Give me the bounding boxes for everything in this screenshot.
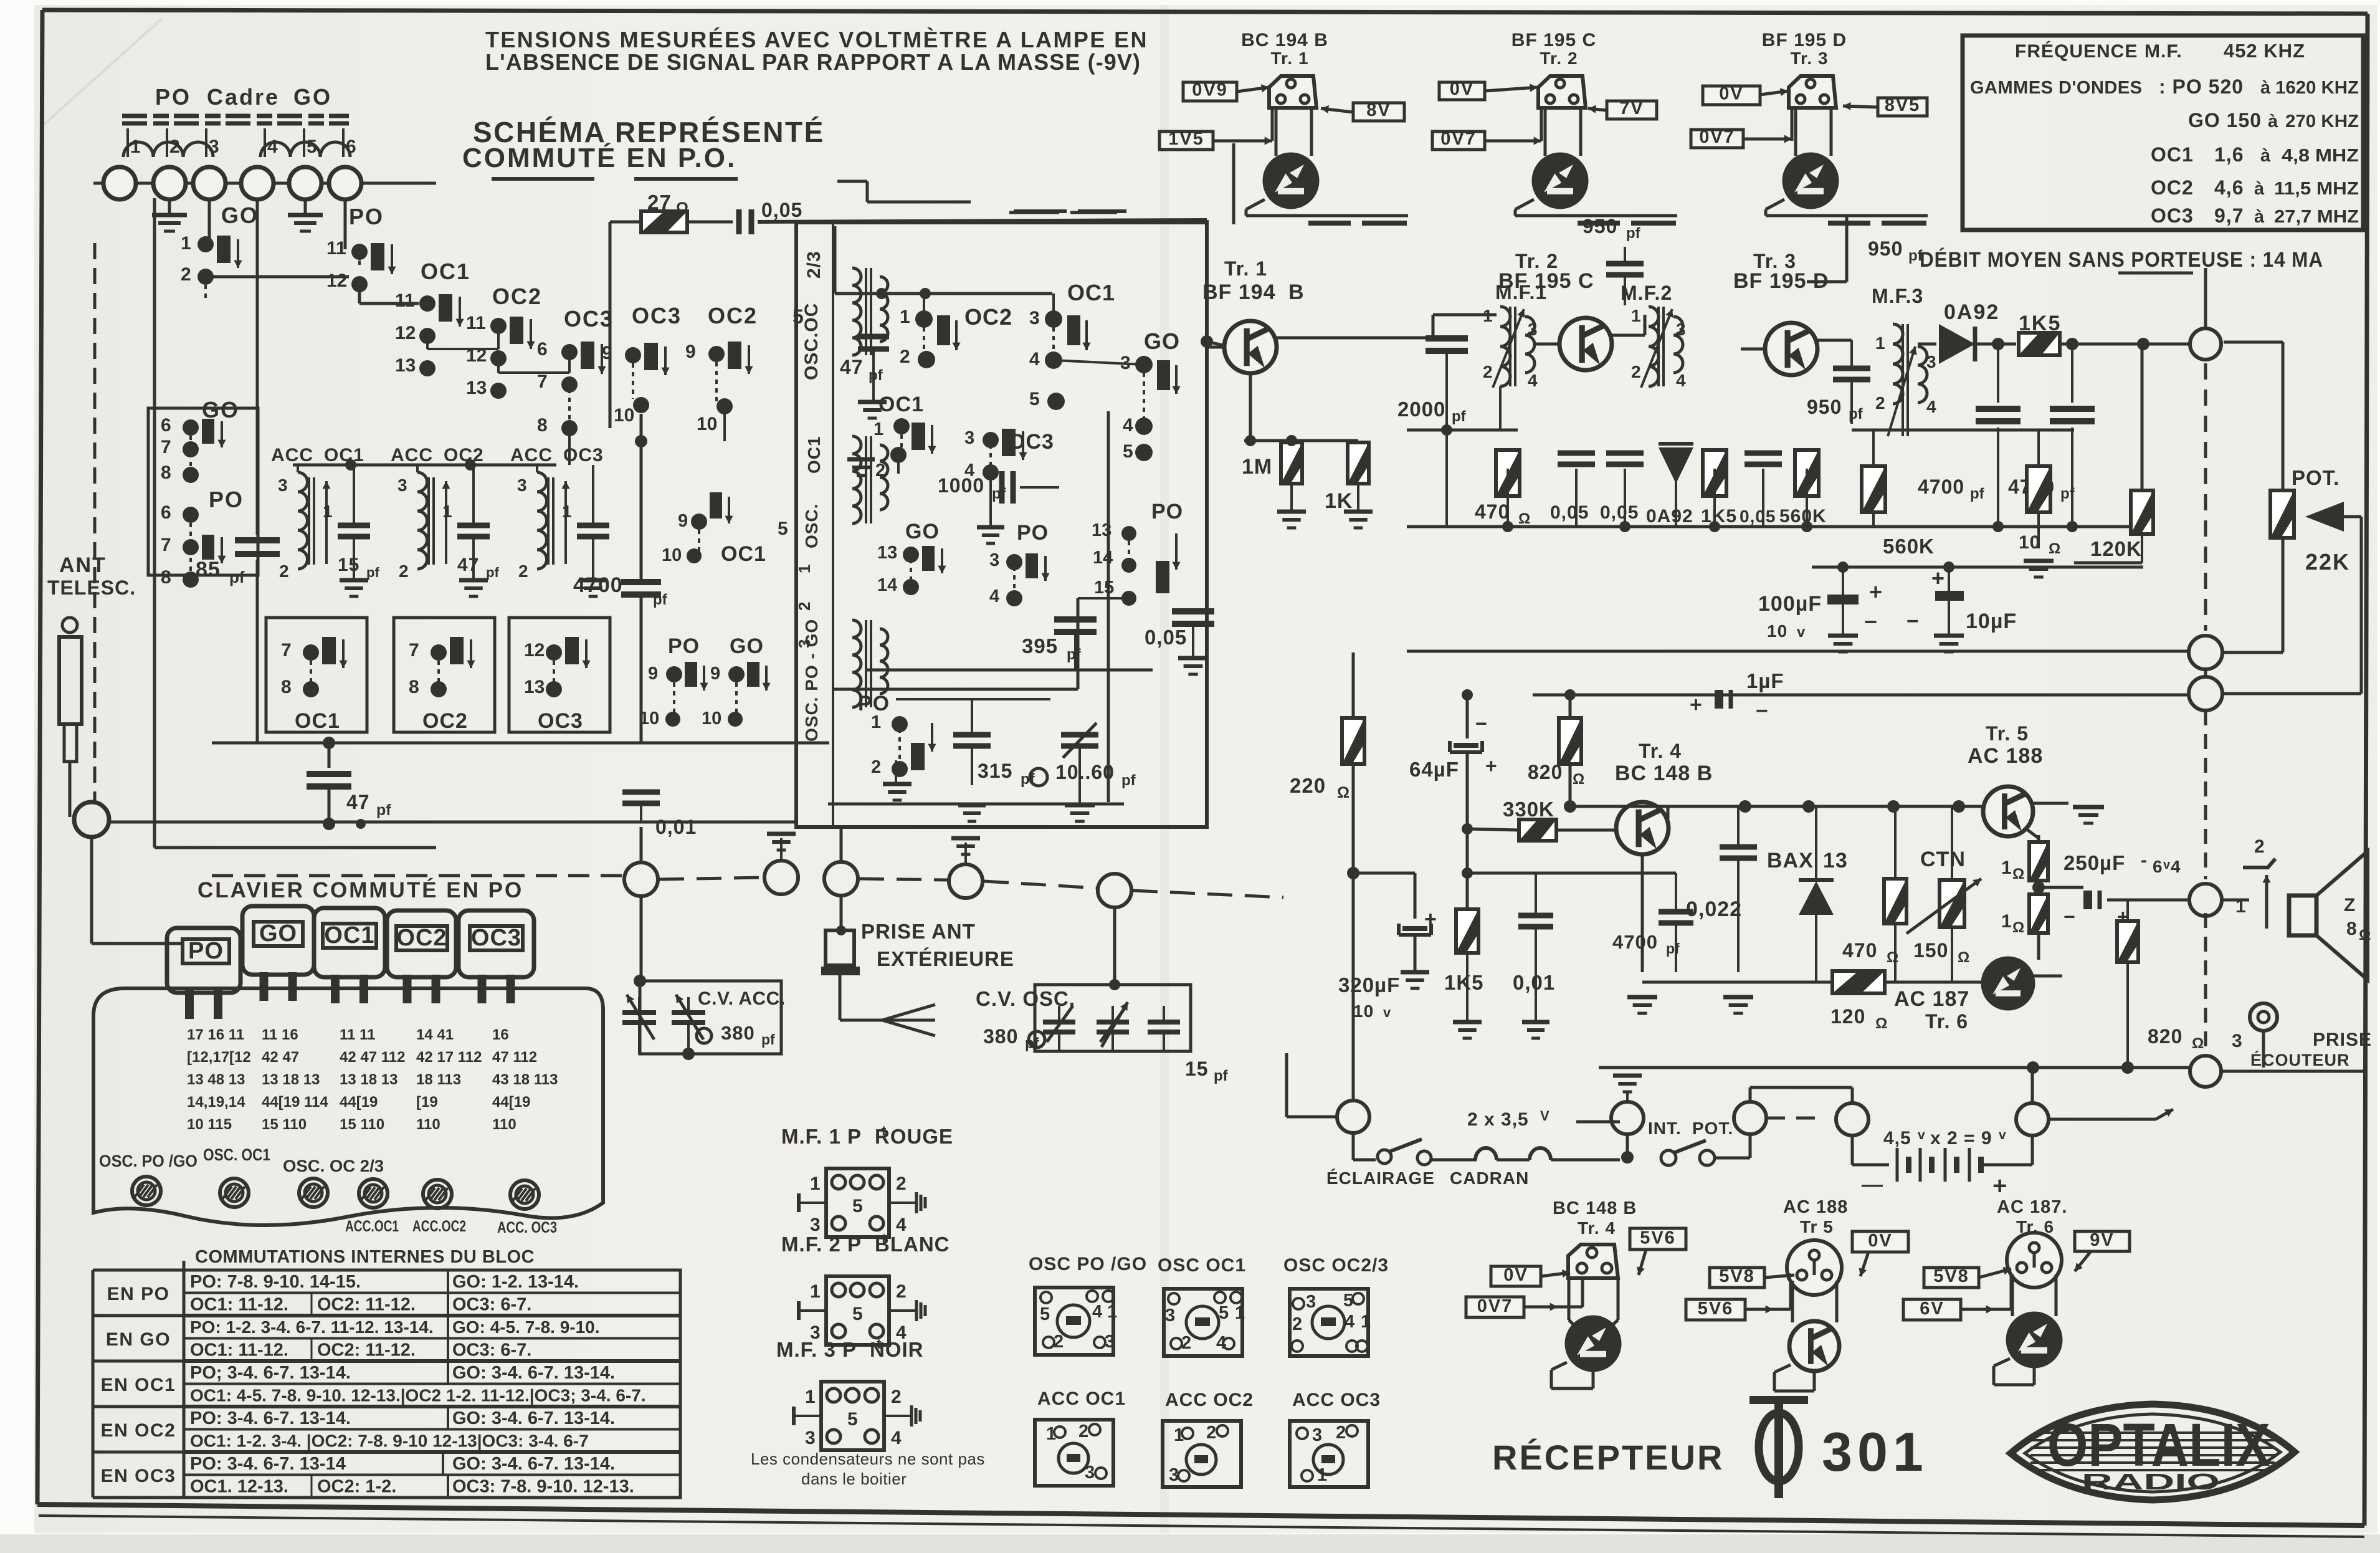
svg-text:1: 1 [1631, 306, 1641, 325]
svg-text:PO: PO [349, 204, 384, 229]
svg-text:8: 8 [281, 677, 292, 697]
svg-text:M.F.3: M.F.3 [1872, 285, 1923, 307]
svg-text:4: 4 [1216, 1333, 1226, 1353]
svg-text:BC 148 B: BC 148 B [1615, 762, 1713, 785]
svg-text:2: 2 [896, 1173, 907, 1194]
svg-text:RADIO: RADIO [2082, 1469, 2220, 1494]
svg-text:COMMUTATIONS INTERNES DU BL: COMMUTATIONS INTERNES DU BLOC [195, 1247, 535, 1267]
svg-text:13: 13 [395, 355, 416, 376]
svg-text:3: 3 [964, 428, 974, 448]
svg-text:4,8 MHZ: 4,8 MHZ [2282, 146, 2359, 166]
svg-text:15: 15 [1094, 578, 1114, 598]
svg-text:GO: GO [221, 203, 259, 228]
svg-text:OC1: OC1 [721, 542, 766, 566]
svg-text:13: 13 [1823, 849, 1848, 872]
svg-text:1: 1 [181, 233, 191, 254]
svg-text:ACC: ACC [391, 445, 433, 466]
svg-text:OC2: OC2 [396, 925, 447, 951]
svg-text:OSC. OC 2/3: OSC. OC 2/3 [283, 1157, 384, 1175]
svg-text:L'ABSENCE DE SIGNAL PAR RA: L'ABSENCE DE SIGNAL PAR RAPPORT A LA MAS… [485, 49, 1141, 75]
svg-text:13 18 13: 13 18 13 [262, 1071, 320, 1088]
svg-text:—: — [1862, 1173, 1883, 1197]
svg-text:15 110: 15 110 [340, 1116, 384, 1133]
svg-text:OSC.: OSC. [802, 504, 821, 548]
svg-text:1: 1 [1483, 306, 1493, 325]
svg-text:PO: 7-8. 9-10. 14-15.: PO: 7-8. 9-10. 14-15. [190, 1272, 361, 1292]
svg-text:GO: 1-2. 13-14.: GO: 1-2. 13-14. [452, 1272, 579, 1292]
svg-text:OC2: OC2 [2151, 176, 2194, 199]
svg-text:AC 187: AC 187 [1894, 987, 1969, 1011]
svg-text:x 2 = 9: x 2 = 9 [1930, 1128, 1992, 1149]
svg-text:8: 8 [161, 567, 171, 588]
svg-text:0,01: 0,01 [1513, 971, 1555, 994]
svg-text:5: 5 [847, 1409, 858, 1430]
svg-text:ACC. OC3: ACC. OC3 [497, 1219, 557, 1236]
svg-text:11: 11 [326, 238, 346, 259]
svg-text:M.F.2: M.F.2 [1621, 282, 1672, 304]
svg-text:15: 15 [1185, 1058, 1209, 1080]
svg-text:à: à [2254, 207, 2265, 227]
svg-text:15: 15 [338, 555, 359, 575]
svg-text:42 47: 42 47 [262, 1049, 299, 1066]
svg-text:BF 195 D: BF 195 D [1733, 269, 1829, 293]
svg-text:v: v [1797, 624, 1806, 641]
svg-text:14 41: 14 41 [416, 1026, 454, 1043]
svg-text:4: 4 [1528, 371, 1538, 390]
svg-text:V: V [1540, 1108, 1550, 1124]
svg-text:0,05: 0,05 [761, 199, 802, 221]
svg-text:POT.: POT. [1692, 1119, 1733, 1138]
svg-text:301: 301 [1822, 1421, 1928, 1483]
svg-text:3: 3 [1676, 320, 1686, 339]
svg-text:3: 3 [517, 475, 527, 495]
svg-text:PO: PO [209, 487, 244, 512]
svg-text:COMMUTÉ EN P.O.: COMMUTÉ EN P.O. [462, 142, 736, 173]
svg-text:4: 4 [989, 586, 999, 606]
svg-text:820: 820 [2148, 1025, 2182, 1048]
svg-text:3: 3 [805, 1428, 816, 1448]
svg-text:C.V. ACC.: C.V. ACC. [698, 988, 786, 1009]
svg-text:OSC.OC: OSC.OC [801, 303, 822, 380]
svg-text:1M: 1M [1242, 455, 1272, 479]
svg-text:5: 5 [1029, 389, 1040, 409]
svg-text:pf: pf [1067, 646, 1082, 663]
svg-text:OSC. PO /GO: OSC. PO /GO [99, 1152, 198, 1170]
svg-text:2: 2 [399, 561, 409, 581]
svg-text:1: 1 [873, 419, 883, 439]
svg-text:ÉCOUTEUR: ÉCOUTEUR [2250, 1050, 2350, 1069]
svg-text:Les condensateurs ne sont pas: Les condensateurs ne sont pas [751, 1450, 985, 1468]
svg-text:Ω: Ω [1337, 784, 1349, 801]
svg-text:3: 3 [1306, 1292, 1316, 1312]
svg-text:CTN: CTN [1920, 848, 1966, 871]
svg-text:10: 10 [702, 709, 721, 729]
svg-text:OC2: 11-12.: OC2: 11-12. [317, 1340, 416, 1360]
svg-text:AC 187.: AC 187. [1997, 1197, 2067, 1217]
svg-text:5V8: 5V8 [1933, 1266, 1969, 1286]
svg-text:TENSIONS MESURÉES AVEC VOLT: TENSIONS MESURÉES AVEC VOLTMÈTRE A LAMPE… [485, 27, 1148, 52]
svg-text:t: t [882, 1231, 887, 1246]
svg-text:3: 3 [1169, 1465, 1179, 1485]
svg-text:7: 7 [161, 437, 171, 457]
svg-text:GO: GO [259, 920, 297, 947]
svg-text:pf: pf [376, 801, 391, 819]
svg-text:2: 2 [1181, 1333, 1191, 1353]
svg-text:47: 47 [346, 791, 370, 813]
svg-text:OC2: OC2 [708, 303, 758, 328]
svg-text:OC3: OC3 [563, 445, 604, 466]
svg-text:t: t [882, 1123, 887, 1139]
svg-text:GO 150: GO 150 [2188, 109, 2262, 131]
svg-text:ANT: ANT [59, 553, 107, 577]
svg-text:PO: 1-2. 3-4. 6-7. 11-12. 13-1: PO: 1-2. 3-4. 6-7. 11-12. 13-14. [190, 1317, 434, 1337]
svg-text:+: + [1992, 1172, 2007, 1200]
svg-text:M.F. 3 P: M.F. 3 P [776, 1338, 857, 1361]
svg-text:18 113: 18 113 [416, 1071, 461, 1088]
svg-text:6V: 6V [1920, 1299, 1944, 1319]
svg-text:2: 2 [871, 757, 881, 777]
svg-text:64µF: 64µF [1409, 758, 1459, 781]
svg-text:B: B [1288, 280, 1305, 304]
svg-text:GO: GO [1144, 328, 1180, 354]
svg-text:2: 2 [1206, 1423, 1216, 1443]
svg-text:OC3: 6-7.: OC3: 6-7. [452, 1340, 531, 1360]
svg-text:1: 1 [810, 1281, 821, 1302]
svg-text:OC1: OC1 [878, 393, 924, 416]
svg-text:GO: 3-4. 6-7. 13-14.: GO: 3-4. 6-7. 13-14. [452, 1454, 615, 1474]
svg-text:ACC OC1: ACC OC1 [1037, 1388, 1126, 1409]
svg-text:1: 1 [805, 1387, 816, 1407]
svg-text:TELESC.: TELESC. [47, 576, 136, 599]
svg-text:2: 2 [1483, 362, 1493, 381]
svg-text:120: 120 [1830, 1005, 1865, 1028]
svg-text:OC3: OC3 [1009, 430, 1054, 454]
svg-text:470: 470 [1842, 939, 1877, 962]
svg-text:OC1: OC1 [324, 922, 374, 949]
svg-text:1: 1 [2001, 911, 2012, 932]
svg-text:v: v [1918, 1128, 1925, 1142]
svg-text:OC3: OC3 [2151, 204, 2194, 227]
svg-text:à: à [2268, 112, 2278, 131]
svg-text:+: + [1931, 565, 1945, 591]
svg-text:0,022: 0,022 [1686, 897, 1742, 921]
svg-text:pf: pf [1908, 247, 1923, 264]
svg-text:1: 1 [1317, 1465, 1327, 1485]
svg-text:pf: pf [1970, 485, 1985, 502]
svg-text:44[19: 44[19 [492, 1094, 530, 1111]
svg-text:8V: 8V [1366, 100, 1391, 120]
svg-text:100µF: 100µF [1758, 592, 1822, 616]
svg-text:11: 11 [395, 290, 415, 311]
svg-text:OC1: 11-12.: OC1: 11-12. [190, 1295, 288, 1315]
svg-text:PO: PO [1151, 500, 1183, 523]
svg-text:950: 950 [1583, 215, 1617, 237]
svg-text:1: 1 [1107, 1302, 1117, 1322]
svg-text:9V: 9V [2090, 1230, 2114, 1250]
svg-text:ACC OC3: ACC OC3 [1292, 1390, 1381, 1410]
svg-text:2: 2 [169, 136, 180, 157]
svg-text:PO: PO [188, 938, 224, 964]
svg-text:−: − [1756, 699, 1769, 723]
svg-text:43 18 113: 43 18 113 [492, 1071, 558, 1088]
svg-text:9: 9 [710, 664, 720, 684]
svg-text:395: 395 [1022, 634, 1058, 657]
svg-text:OC1: OC1 [1067, 280, 1115, 305]
svg-text:pf: pf [869, 367, 883, 384]
svg-text:OC2: OC2 [422, 709, 468, 733]
svg-text:OC3: OC3 [538, 709, 583, 733]
svg-text:GO: 3-4. 6-7. 13-14.: GO: 3-4. 6-7. 13-14. [452, 1408, 615, 1428]
svg-text:110: 110 [492, 1116, 516, 1133]
svg-text:2/3: 2/3 [804, 251, 824, 279]
svg-text:ROUGE: ROUGE [875, 1125, 953, 1148]
svg-text:8V5: 8V5 [1885, 95, 1921, 115]
svg-text:1K5: 1K5 [1444, 971, 1484, 994]
svg-text:EN OC2: EN OC2 [101, 1420, 176, 1441]
svg-text:2: 2 [1078, 1422, 1088, 1441]
svg-text:7: 7 [409, 640, 419, 661]
svg-text:3: 3 [1528, 320, 1538, 339]
svg-text:OC1: OC1 [324, 445, 364, 466]
svg-text:Ω: Ω [2012, 866, 2024, 882]
svg-text:44[19 114: 44[19 114 [262, 1094, 328, 1111]
svg-text:2: 2 [900, 346, 910, 367]
svg-text:3: 3 [1926, 352, 1936, 371]
svg-text:OC1: 1-2. 3-4. |OC2: 7-8. 9-10: OC1: 1-2. 3-4. |OC2: 7-8. 9-10 12-13|OC3… [190, 1431, 589, 1451]
svg-text:0,01: 0,01 [655, 816, 697, 838]
svg-text:1: 1 [1046, 1424, 1056, 1444]
svg-text:OSC. PO - GO: OSC. PO - GO [802, 619, 821, 742]
svg-text:2: 2 [1875, 393, 1885, 413]
svg-text:pf: pf [1666, 940, 1680, 957]
svg-text:v: v [1999, 1128, 2006, 1142]
svg-text:BAX: BAX [1767, 849, 1814, 872]
svg-text:+: + [1690, 693, 1703, 717]
svg-text:42 47 112: 42 47 112 [340, 1049, 405, 1066]
svg-text:5V6: 5V6 [1640, 1228, 1676, 1248]
svg-text:Tr. 1: Tr. 1 [1224, 257, 1267, 280]
svg-text:10: 10 [639, 709, 659, 729]
svg-text:10: 10 [1353, 1001, 1374, 1021]
svg-text:11 11: 11 11 [340, 1026, 375, 1043]
svg-text:AC 188: AC 188 [1783, 1197, 1848, 1217]
svg-text:11 16: 11 16 [262, 1026, 298, 1043]
svg-text:13: 13 [524, 677, 545, 697]
svg-text:2: 2 [875, 461, 885, 480]
svg-text:pf: pf [366, 565, 379, 580]
svg-text:pf: pf [761, 1031, 775, 1048]
svg-text:OC1: 11-12.: OC1: 11-12. [190, 1340, 288, 1360]
svg-text:Tr 5: Tr 5 [1800, 1217, 1834, 1236]
svg-text:GO: 3-4. 6-7. 13-14.: GO: 3-4. 6-7. 13-14. [452, 1363, 615, 1383]
svg-text:1000: 1000 [938, 474, 984, 497]
svg-text:5: 5 [1343, 1291, 1353, 1311]
svg-text:0V: 0V [1719, 84, 1743, 104]
svg-text:Ω: Ω [2012, 919, 2024, 936]
svg-text:: PO 520: : PO 520 [2159, 75, 2244, 98]
svg-text:4: 4 [267, 136, 278, 157]
svg-text:GO: GO [730, 634, 764, 658]
svg-text:8: 8 [537, 415, 548, 436]
svg-text:320µF: 320µF [1338, 973, 1400, 996]
svg-text:FRÉQUENCE: FRÉQUENCE [2015, 41, 2138, 62]
svg-text:10: 10 [614, 405, 634, 426]
svg-text:OSC PO /GO: OSC PO /GO [1029, 1254, 1147, 1274]
svg-text:EN OC1: EN OC1 [101, 1375, 176, 1395]
svg-text:9: 9 [685, 342, 696, 362]
svg-text:1: 1 [1361, 1312, 1371, 1332]
svg-text:OC3: 6-7.: OC3: 6-7. [452, 1295, 531, 1315]
svg-text:1,6: 1,6 [2214, 143, 2244, 166]
svg-text:1: 1 [900, 307, 910, 327]
svg-text:BF 195 C: BF 195 C [1498, 269, 1594, 293]
svg-text:47 112: 47 112 [492, 1049, 537, 1066]
svg-text:950: 950 [1807, 396, 1842, 418]
svg-text:250µF: 250µF [2063, 851, 2125, 874]
svg-text:ACC.OC1: ACC.OC1 [345, 1218, 399, 1235]
svg-text:6: 6 [161, 415, 171, 436]
svg-text:1: 1 [1235, 1303, 1245, 1323]
svg-text:9: 9 [678, 511, 688, 531]
svg-text:0,05: 0,05 [1740, 507, 1776, 526]
svg-text:0A92: 0A92 [1646, 506, 1693, 527]
svg-text:4,6: 4,6 [2214, 176, 2244, 199]
svg-text:Ω: Ω [2192, 1035, 2204, 1052]
svg-text:-: - [2141, 850, 2148, 871]
svg-text:pf: pf [1121, 772, 1136, 789]
svg-text:11,5 MHZ: 11,5 MHZ [2274, 179, 2359, 199]
svg-text:5: 5 [852, 1196, 863, 1216]
svg-text:3: 3 [795, 639, 814, 648]
svg-text:820: 820 [1528, 761, 1563, 783]
svg-text:380: 380 [721, 1022, 755, 1044]
svg-text:3: 3 [1029, 308, 1040, 328]
svg-text:RÉCEPTEUR: RÉCEPTEUR [1492, 1438, 1724, 1477]
svg-text:OC2: 1-2.: OC2: 1-2. [317, 1477, 396, 1497]
svg-text:2000: 2000 [1397, 398, 1445, 421]
svg-text:10: 10 [697, 414, 717, 434]
svg-text:5V6: 5V6 [1698, 1299, 1734, 1319]
svg-text:5: 5 [307, 136, 317, 157]
svg-text:pf: pf [1452, 408, 1467, 425]
svg-text:6: 6 [2153, 857, 2163, 876]
svg-text:PO: 3-4. 6-7. 13-14: PO: 3-4. 6-7. 13-14 [190, 1454, 346, 1474]
svg-text:4700: 4700 [573, 573, 623, 597]
svg-text:2: 2 [1631, 362, 1641, 381]
svg-text:1K: 1K [1325, 489, 1353, 513]
svg-text:120K: 120K [2090, 537, 2142, 560]
svg-text:42 17 112: 42 17 112 [416, 1049, 482, 1066]
svg-text:PO; 3-4. 6-7. 13-14.: PO; 3-4. 6-7. 13-14. [190, 1363, 351, 1383]
svg-text:OC2: 11-12.: OC2: 11-12. [317, 1295, 416, 1315]
svg-text:pf: pf [486, 565, 499, 580]
svg-text:ÉCLAIRAGE: ÉCLAIRAGE [1326, 1168, 1435, 1188]
svg-text:Ω: Ω [1958, 949, 1969, 966]
svg-text:Tr. 3: Tr. 3 [1790, 49, 1828, 68]
svg-text:1: 1 [1174, 1425, 1184, 1445]
svg-text:9: 9 [648, 664, 658, 684]
svg-text:M.F. 1 P: M.F. 1 P [781, 1125, 862, 1148]
svg-text:M.F. 2 P: M.F. 2 P [781, 1233, 862, 1256]
svg-text:0,05: 0,05 [1550, 502, 1589, 523]
svg-text:Tr. 2: Tr. 2 [1540, 49, 1578, 68]
svg-text:1: 1 [130, 136, 141, 157]
svg-text:0V7: 0V7 [1477, 1296, 1513, 1316]
svg-text:4: 4 [1345, 1312, 1354, 1332]
svg-text:2: 2 [896, 1281, 907, 1302]
svg-text:3: 3 [989, 550, 999, 570]
svg-text:315: 315 [978, 760, 1012, 782]
svg-text:PO: PO [668, 634, 700, 658]
svg-text:7: 7 [161, 535, 171, 555]
svg-text:Ω: Ω [2359, 927, 2371, 944]
svg-text:Tr. 4: Tr. 4 [1578, 1218, 1616, 1238]
svg-text:Ω: Ω [1518, 510, 1530, 527]
svg-text:pf: pf [1025, 1035, 1040, 1052]
svg-text:à: à [2254, 179, 2265, 199]
svg-text:DÉBIT MOYEN SANS PORTEUSE: DÉBIT MOYEN SANS PORTEUSE : 14 MA [1920, 248, 2323, 272]
svg-text:[19: [19 [416, 1094, 438, 1111]
svg-text:PRISE ANT: PRISE ANT [861, 920, 976, 943]
svg-text:1µF: 1µF [1746, 669, 1784, 692]
svg-text:Ω: Ω [1887, 949, 1898, 966]
svg-text:1: 1 [795, 565, 814, 573]
svg-text:Ω: Ω [1875, 1015, 1887, 1032]
svg-text:9,7: 9,7 [2214, 204, 2244, 227]
svg-text:PO: PO [1017, 521, 1049, 545]
svg-text:à: à [2260, 78, 2271, 98]
svg-text:4: 4 [1092, 1302, 1102, 1322]
svg-text:13 18 13: 13 18 13 [340, 1071, 397, 1088]
svg-text:5: 5 [852, 1304, 863, 1324]
svg-text:ACC: ACC [510, 445, 553, 466]
svg-text:ACC: ACC [271, 445, 313, 466]
svg-text:v: v [1383, 1005, 1391, 1020]
svg-text:t: t [877, 1336, 882, 1352]
svg-text:2: 2 [518, 561, 528, 581]
svg-text:4: 4 [1123, 415, 1133, 436]
svg-text:OSC OC2/3: OSC OC2/3 [1283, 1255, 1389, 1276]
svg-text:à: à [2260, 146, 2271, 166]
svg-text:47: 47 [840, 356, 864, 378]
svg-text:470: 470 [1475, 500, 1510, 523]
svg-text:pf: pf [653, 591, 668, 608]
svg-text:GO: GO [905, 520, 940, 543]
svg-text:OC1: OC1 [2151, 143, 2194, 166]
svg-text:GO: GO [293, 84, 332, 110]
svg-text:Z: Z [2344, 895, 2356, 915]
svg-text:10: 10 [662, 545, 682, 565]
svg-text:Tr. 6: Tr. 6 [1925, 1010, 1968, 1033]
svg-text:pf: pf [1214, 1068, 1229, 1084]
svg-text:OC3: OC3 [471, 925, 521, 951]
svg-text:0,05: 0,05 [1600, 502, 1639, 523]
svg-text:14,19,14: 14,19,14 [187, 1094, 245, 1111]
svg-text:EN PO: EN PO [107, 1284, 170, 1304]
svg-text:BF 194: BF 194 [1202, 280, 1276, 304]
svg-text:4700: 4700 [1918, 475, 1964, 498]
svg-text:OC3: OC3 [632, 303, 682, 328]
svg-text:1: 1 [2001, 858, 2012, 878]
svg-text:10..60: 10..60 [1055, 761, 1115, 783]
svg-text:5: 5 [1123, 441, 1133, 462]
svg-text:12: 12 [524, 640, 545, 661]
svg-text:3: 3 [397, 475, 407, 495]
svg-text:Tr. 4: Tr. 4 [1639, 740, 1682, 762]
svg-text:5: 5 [778, 518, 788, 539]
svg-text:PO: PO [155, 84, 191, 110]
svg-text:7: 7 [281, 640, 292, 661]
